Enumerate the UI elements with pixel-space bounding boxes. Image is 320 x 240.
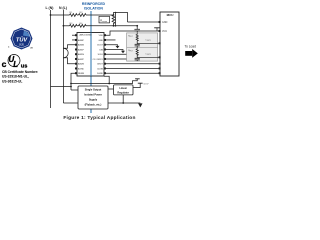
- wire data line 3: [106, 72, 160, 74]
- capacitor C1 plates: [134, 29, 140, 31]
- wire CT bottom: [63, 58, 75, 64]
- svg-text:VCC: VCC: [162, 30, 167, 33]
- svg-text:us: us: [21, 64, 28, 70]
- svg-text:Regulator: Regulator: [117, 91, 129, 94]
- svg-text:AIN2P: AIN2P: [78, 58, 85, 61]
- svg-text:DGND: DGND: [97, 73, 104, 75]
- svg-text:SCLK: SCLK: [98, 54, 104, 56]
- svg-text:Single Output: Single Output: [85, 88, 102, 91]
- svg-text:sense: sense: [102, 21, 107, 23]
- svg-text:AMC131M03: AMC131M03: [80, 34, 93, 37]
- CB certificate text: [2, 70, 38, 84]
- svg-text:US-36315-UL: US-36315-UL: [2, 79, 22, 83]
- wire CT top: [63, 45, 75, 49]
- resistor RF2: [136, 47, 138, 57]
- svg-text:AIN0N: AIN0N: [78, 44, 85, 47]
- svg-text:CB Certificate Number:: CB Certificate Number:: [2, 70, 38, 74]
- cULus logo: [2, 55, 28, 70]
- ground symbol 2: [121, 51, 125, 54]
- svg-text:L (N): L (N): [46, 6, 54, 10]
- svg-text:AGND: AGND: [78, 67, 84, 70]
- TUV SUD logo: [8, 28, 33, 50]
- wire GND run to MCU: [128, 21, 161, 23]
- linear regulator box: [114, 85, 134, 95]
- wire to power box lower: [63, 102, 78, 104]
- svg-text:US-32918-M1-UL,: US-32918-M1-UL,: [2, 75, 29, 79]
- wire upper rail: [51, 14, 70, 16]
- svg-text:VDD: VDD: [99, 35, 104, 37]
- wire chip pin stubs left top: [72, 34, 75, 36]
- svg-text:GND: GND: [98, 40, 103, 42]
- svg-text:AIN1N: AIN1N: [78, 53, 85, 56]
- wire bottom-left pin down: [71, 73, 75, 90]
- svg-text:FILT1: FILT1: [147, 40, 151, 42]
- svg-text:AIN0P: AIN0P: [78, 39, 85, 42]
- wire pin6 to filter box: [106, 58, 127, 60]
- wire chip corner stub: [104, 76, 109, 83]
- capacitor CF2: [135, 57, 140, 59]
- svg-text:L: L: [13, 60, 18, 69]
- MCU pin squares: [159, 21, 161, 74]
- wire VCC run to MCU: [106, 31, 160, 35]
- wire pin5 to filter box: [106, 53, 127, 55]
- ground symbol bottom right: [138, 103, 142, 107]
- resistor R1: [70, 14, 78, 17]
- svg-text:FILT2: FILT2: [147, 54, 151, 56]
- 3.3V rail bottom bar: [135, 78, 140, 80]
- resistor R2: [79, 14, 87, 17]
- svg-text:c: c: [2, 59, 7, 69]
- wire pin4 to ground: [106, 49, 123, 50]
- wire branch y86.5: [51, 86, 72, 88]
- power supply box: [78, 86, 108, 109]
- svg-text:Isolated Power: Isolated Power: [84, 93, 102, 96]
- capacitor CF1: [135, 43, 140, 45]
- wire data line 1: [106, 63, 160, 65]
- ground symbol 1: [116, 46, 120, 49]
- wire lower rail: [63, 25, 69, 27]
- svg-text:Supply: Supply: [89, 98, 98, 101]
- svg-text:ISOLATION: ISOLATION: [84, 7, 103, 11]
- svg-text:AIN2N: AIN2N: [78, 63, 85, 66]
- filter node 1 output wire: [137, 42, 160, 44]
- svg-text:3.3 V: 3.3 V: [143, 83, 149, 85]
- svg-text:CLKIN: CLKIN: [97, 68, 104, 70]
- isolation barrier: [90, 11, 92, 113]
- junction dots: [50, 12, 139, 104]
- IC U1 pin labels left: [78, 39, 85, 75]
- svg-text:AIN1P: AIN1P: [78, 48, 85, 51]
- svg-text:DIN: DIN: [99, 49, 103, 51]
- svg-text:REFIN: REFIN: [78, 73, 85, 75]
- IC U1 body: [77, 33, 104, 77]
- wire pin2 riser: [106, 39, 116, 41]
- Rsense box: [99, 16, 110, 23]
- svg-text:REINFORCED: REINFORCED: [82, 2, 106, 6]
- 3.3V rail top bar: [154, 27, 160, 29]
- svg-text:FILT: FILT: [130, 51, 133, 53]
- svg-text:DRDY: DRDY: [97, 64, 103, 66]
- filter network box: [127, 33, 160, 61]
- IC U1 pin squares right: [104, 34, 106, 74]
- svg-text:SÜD: SÜD: [19, 44, 24, 47]
- resistor RF1: [136, 33, 138, 43]
- isolation barrier inside chip: [90, 33, 92, 77]
- svg-text:To Load: To Load: [185, 44, 197, 48]
- svg-text:DOUT: DOUT: [97, 45, 104, 47]
- wire linear reg bottom: [122, 95, 124, 103]
- wire GND2 run y83.5: [71, 79, 137, 84]
- IC U1 pin squares left: [75, 34, 77, 74]
- svg-text:MCU: MCU: [167, 13, 174, 17]
- filter node 2 output wire: [137, 56, 160, 58]
- MCU box: [160, 12, 179, 76]
- svg-text:(Flyback, etc.): (Flyback, etc.): [85, 103, 102, 106]
- wire bottom gnd rail: [108, 102, 140, 104]
- wire parallel vertical: [115, 13, 117, 26]
- svg-text:N (L): N (L): [59, 6, 67, 10]
- wire top jog to GND run: [114, 13, 128, 23]
- wire N vertical: [62, 10, 64, 103]
- resistor R3: [70, 24, 78, 27]
- svg-text:Figure 1: Typical Application: Figure 1: Typical Application: [63, 115, 135, 121]
- IC U1 pin labels right: [93, 35, 104, 75]
- svg-text:Linear: Linear: [119, 87, 127, 90]
- resistor labels: [70, 12, 84, 25]
- wire L vertical: [50, 10, 52, 108]
- svg-text:CS / DRDY: CS / DRDY: [93, 59, 104, 61]
- capacitor C1 stubs: [136, 26, 138, 29]
- svg-text:GND: GND: [162, 21, 168, 24]
- svg-text:TÜV: TÜV: [16, 37, 28, 44]
- wire power box to linear reg: [108, 88, 114, 90]
- CT sensor arc: [63, 48, 68, 58]
- wire pin3 to ground: [106, 45, 118, 46]
- wire to power box upper: [71, 89, 78, 91]
- resistor R4: [79, 24, 87, 27]
- resistor Rdiv vertical: [112, 15, 115, 26]
- REINFORCED ISOLATION label: [82, 2, 106, 11]
- wire data line 2: [106, 67, 160, 69]
- svg-text:FILT: FILT: [130, 36, 133, 38]
